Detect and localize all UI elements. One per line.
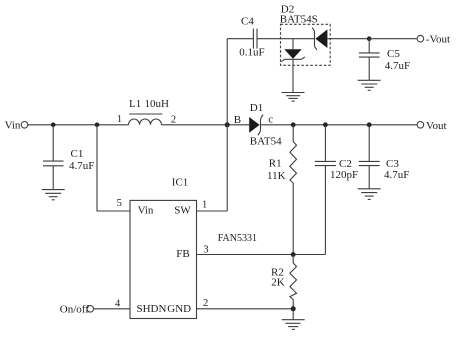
wire inductor to node B [162,124,250,126]
wire top rail to C4 [227,38,253,40]
resistor R1 [267,125,297,255]
node R2 ground junction [291,306,296,311]
svg-text:FB: FB [176,248,189,260]
svg-text:On/off: On/off [60,303,89,315]
capacitor C3 [359,125,410,189]
svg-text:L1: L1 [129,98,141,110]
svg-text:c: c [268,114,273,126]
node FB junction [291,252,296,257]
svg-text:BAT54S: BAT54S [280,13,318,25]
svg-text:C1: C1 [71,148,84,160]
pin 1 SW wire [197,125,228,211]
svg-text:4.7uF: 4.7uF [69,160,94,172]
op-amp IC1 FAN5331 box [130,177,257,319]
node B [225,114,241,128]
terminal On/off [60,303,94,315]
capacitor C4 [239,16,264,59]
svg-text:4.7uF: 4.7uF [384,169,409,181]
wire Vin rail to inductor [28,124,129,126]
capacitor C5 [359,39,410,81]
capacitor C1 [43,125,94,190]
svg-text:SW: SW [174,205,191,217]
pin 3 FB wire [197,245,326,256]
svg-text:SHDN: SHDN [137,303,167,315]
node R1 tap [291,122,296,127]
svg-text:Vin: Vin [5,120,21,132]
svg-text:-Vout: -Vout [426,33,450,45]
svg-text:2K: 2K [271,277,285,289]
diode D2 series element (points left) [312,28,369,50]
ground C1 [42,190,65,200]
svg-text:4.7uF: 4.7uF [385,60,410,72]
svg-text:120pF: 120pF [330,169,358,181]
svg-text:BAT54: BAT54 [250,135,282,147]
capacitor C2 [315,125,358,255]
svg-text:0.1uF: 0.1uF [239,47,264,59]
wire D1 to Vout [261,124,418,126]
resistor R2 [271,255,297,309]
svg-text:1: 1 [117,114,122,125]
svg-text:FAN5331: FAN5331 [218,233,257,244]
node C2 tap [323,122,328,127]
ground R2 [282,309,305,330]
wire C4 to D2 [257,38,315,40]
diode D2 shunt element (points down) [281,39,305,62]
svg-text:5: 5 [117,198,122,209]
svg-text:Vout: Vout [426,120,447,132]
inductor L1 [117,98,176,126]
ground C3 [358,189,381,200]
pin 4 SHDN wire [94,298,130,309]
ground C5 [358,80,381,90]
svg-text:B: B [234,114,241,126]
node C1 tap [51,123,56,128]
terminal Vin [5,120,28,132]
svg-text:C5: C5 [387,48,400,60]
svg-text:3: 3 [203,245,208,256]
terminal -Vout [417,33,450,45]
svg-text:2: 2 [203,298,208,309]
svg-text:2: 2 [171,114,176,125]
wire D2 to ground [292,59,294,92]
wire node B up to top rail [226,39,228,125]
svg-text:4: 4 [115,298,121,309]
diode D2 BAT54S dashed package [280,4,330,66]
svg-text:Vin: Vin [138,205,154,217]
ground D2 [282,93,305,102]
node C5 tap [367,36,372,41]
pin 2 GND wire [197,298,294,309]
diode D1 BAT54 [249,102,282,147]
svg-text:IC1: IC1 [172,177,189,189]
node C3 tap [367,122,372,127]
terminal Vout [417,120,446,132]
svg-text:R1: R1 [269,157,282,169]
svg-text:GND: GND [167,303,191,315]
svg-text:1: 1 [202,200,207,211]
svg-text:C4: C4 [241,16,254,28]
svg-text:10uH: 10uH [145,98,170,110]
wire top rail to -Vout [369,38,417,40]
svg-text:11K: 11K [267,170,286,182]
wire to pin 5 [97,125,130,211]
svg-text:D1: D1 [250,102,263,114]
node pin5 tap [95,123,100,128]
